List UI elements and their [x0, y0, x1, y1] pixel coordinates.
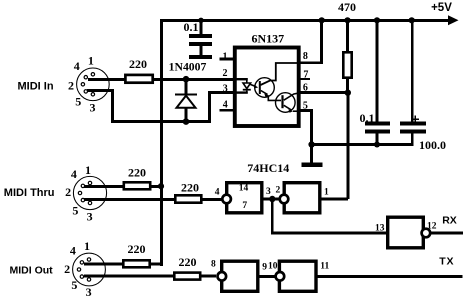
- svg-text:220: 220: [128, 242, 146, 256]
- svg-text:1: 1: [88, 54, 94, 68]
- svg-text:3: 3: [223, 84, 228, 95]
- svg-text:0.1: 0.1: [184, 20, 199, 34]
- svg-text:4: 4: [215, 188, 220, 198]
- svg-text:470: 470: [338, 0, 356, 14]
- svg-text:2: 2: [64, 262, 70, 276]
- svg-text:MIDI In: MIDI In: [18, 81, 54, 93]
- svg-text:3: 3: [86, 285, 92, 299]
- svg-text:1: 1: [223, 52, 228, 63]
- svg-text:0.1: 0.1: [360, 111, 375, 125]
- svg-text:74HC14: 74HC14: [247, 161, 289, 175]
- svg-text:RX: RX: [442, 214, 457, 226]
- svg-text:MIDI Out: MIDI Out: [10, 265, 54, 277]
- svg-text:10: 10: [268, 261, 278, 271]
- svg-text:+5V: +5V: [431, 2, 452, 14]
- svg-text:9: 9: [262, 262, 267, 272]
- svg-text:2: 2: [68, 79, 74, 93]
- svg-text:7: 7: [303, 70, 308, 81]
- svg-text:2: 2: [65, 185, 71, 199]
- svg-text:4: 4: [71, 167, 77, 181]
- svg-text:6N137: 6N137: [251, 32, 284, 46]
- svg-text:100.0: 100.0: [419, 138, 446, 152]
- svg-text:8: 8: [303, 51, 308, 62]
- svg-text:5: 5: [75, 95, 81, 109]
- svg-text:6: 6: [303, 83, 308, 94]
- svg-text:5: 5: [72, 203, 78, 217]
- svg-text:12: 12: [427, 222, 437, 232]
- svg-text:1N4007: 1N4007: [169, 60, 207, 73]
- svg-text:3: 3: [90, 101, 96, 115]
- svg-text:2: 2: [276, 186, 281, 196]
- svg-text:3: 3: [87, 210, 93, 224]
- svg-text:1: 1: [84, 239, 90, 253]
- svg-text:4: 4: [223, 100, 228, 111]
- svg-text:220: 220: [179, 255, 197, 269]
- svg-text:1: 1: [324, 188, 329, 198]
- svg-text:5: 5: [71, 278, 77, 292]
- svg-text:5: 5: [303, 101, 308, 112]
- svg-text:11: 11: [320, 262, 329, 272]
- svg-text:3: 3: [266, 187, 271, 197]
- svg-text:13: 13: [375, 223, 385, 233]
- svg-text:4: 4: [74, 59, 80, 73]
- svg-text:220: 220: [181, 181, 199, 195]
- svg-text:2: 2: [223, 68, 228, 79]
- svg-text:4: 4: [70, 244, 76, 258]
- svg-text:MIDI Thru: MIDI Thru: [4, 187, 55, 199]
- svg-text:220: 220: [128, 166, 146, 180]
- svg-text:14: 14: [239, 184, 249, 194]
- svg-text:1: 1: [85, 163, 91, 177]
- svg-text:7: 7: [242, 201, 247, 211]
- svg-text:220: 220: [129, 57, 147, 71]
- svg-text:8: 8: [211, 259, 216, 269]
- svg-text:TX: TX: [439, 256, 454, 268]
